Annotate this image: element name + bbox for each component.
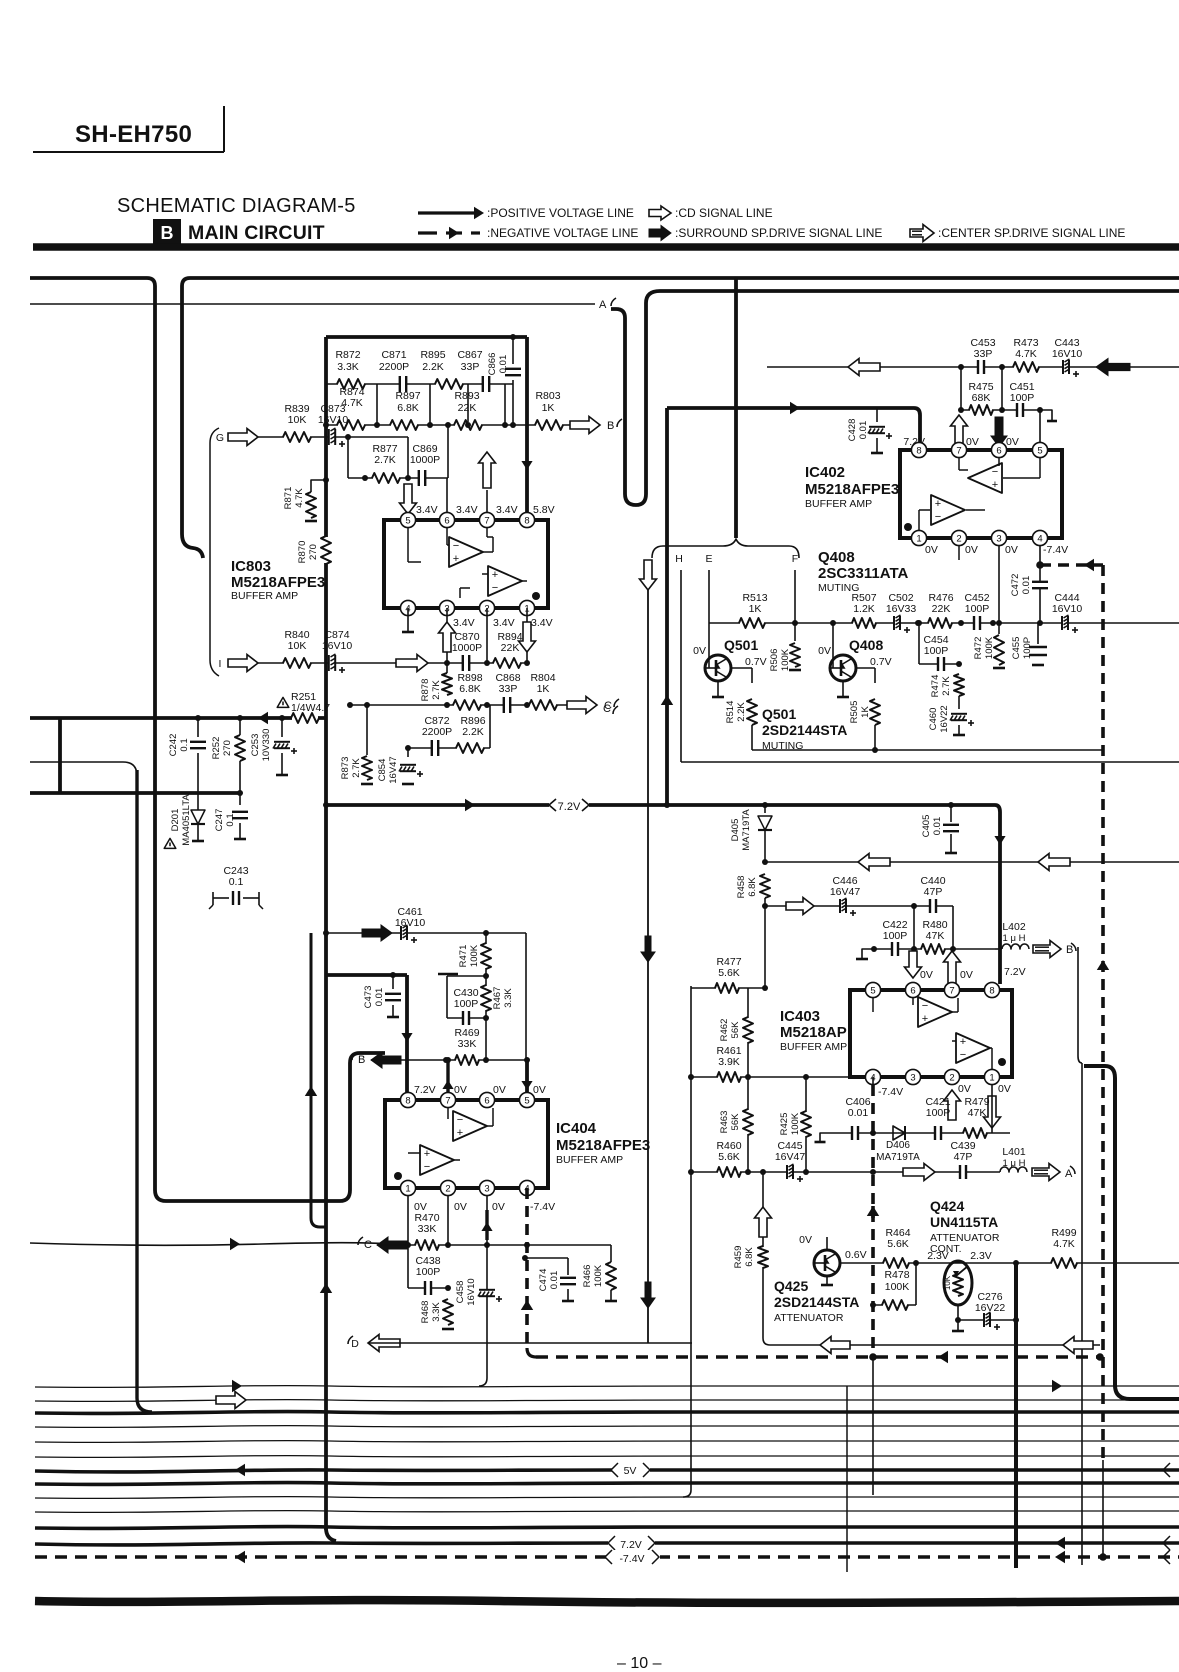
svg-text:D406: D406 — [886, 1140, 910, 1151]
svg-text:R803: R803 — [535, 390, 560, 402]
svg-text:I: I — [219, 658, 222, 670]
svg-text:+: + — [424, 1148, 430, 1160]
svg-text:UN4115TA: UN4115TA — [930, 1214, 998, 1230]
svg-text:R459: R459 — [733, 1246, 744, 1269]
svg-text:1K: 1K — [749, 603, 762, 615]
svg-text:3.9K: 3.9K — [718, 1056, 740, 1068]
svg-text:100P: 100P — [883, 930, 908, 942]
svg-text:Q408: Q408 — [849, 637, 883, 653]
svg-text:2SC3311ATA: 2SC3311ATA — [818, 565, 908, 582]
svg-text:MUTING: MUTING — [818, 582, 859, 594]
svg-text:M5218AP: M5218AP — [780, 1024, 847, 1041]
svg-text:6: 6 — [444, 515, 449, 526]
svg-text:R871: R871 — [283, 487, 294, 510]
svg-text:5.6K: 5.6K — [718, 967, 740, 979]
svg-text:0.1: 0.1 — [225, 813, 236, 826]
svg-text:6.8K: 6.8K — [397, 402, 419, 414]
svg-text:0.7V: 0.7V — [870, 656, 892, 668]
svg-text:22K: 22K — [501, 642, 520, 654]
svg-text:47K: 47K — [926, 930, 945, 942]
svg-text:47K: 47K — [968, 1107, 987, 1119]
svg-text:0V: 0V — [965, 544, 978, 556]
svg-text:100K: 100K — [790, 1112, 801, 1135]
svg-text:L402: L402 — [1002, 921, 1026, 933]
svg-text:8: 8 — [989, 985, 994, 996]
svg-text:3.4V: 3.4V — [493, 617, 515, 629]
svg-text:-7.4V: -7.4V — [619, 1553, 644, 1565]
svg-text:R471: R471 — [458, 945, 469, 968]
svg-text:6.8K: 6.8K — [744, 1247, 755, 1267]
svg-text:1 μ H: 1 μ H — [1003, 1158, 1026, 1169]
svg-text:7.2V: 7.2V — [414, 1084, 436, 1096]
svg-text:C405: C405 — [921, 815, 932, 838]
svg-text:E: E — [705, 553, 712, 565]
svg-text:0.1: 0.1 — [229, 876, 244, 888]
svg-text::POSITIVE VOLTAGE LINE: :POSITIVE VOLTAGE LINE — [487, 206, 634, 220]
svg-text:2.3V: 2.3V — [970, 1250, 992, 1262]
svg-text:C455: C455 — [1011, 637, 1022, 660]
svg-text:−: − — [992, 466, 998, 478]
svg-text:3.3K: 3.3K — [337, 361, 359, 373]
svg-text:Q408: Q408 — [818, 549, 855, 566]
svg-text:16V10: 16V10 — [1052, 348, 1083, 360]
svg-text:0V: 0V — [533, 1084, 546, 1096]
svg-text:0.01: 0.01 — [932, 817, 943, 836]
svg-text:M5218AFPE3: M5218AFPE3 — [556, 1137, 650, 1154]
svg-text:5.6K: 5.6K — [718, 1151, 740, 1163]
svg-text:10K: 10K — [943, 1275, 952, 1290]
svg-text:0V: 0V — [1006, 436, 1019, 448]
svg-text:100P: 100P — [1022, 637, 1033, 659]
svg-text:270: 270 — [222, 740, 233, 756]
svg-text:16V33: 16V33 — [886, 603, 917, 615]
svg-text:IC402: IC402 — [805, 464, 845, 481]
svg-text:100P: 100P — [454, 998, 479, 1010]
svg-text:0V: 0V — [818, 645, 831, 657]
svg-text:R893: R893 — [454, 390, 479, 402]
svg-text:G: G — [216, 432, 224, 444]
svg-text:3: 3 — [996, 533, 1001, 544]
svg-text:C247: C247 — [214, 809, 225, 832]
svg-text:M5218AFPE3: M5218AFPE3 — [231, 574, 325, 591]
svg-text:+: + — [453, 553, 459, 565]
svg-text:−: − — [457, 1114, 463, 1126]
svg-text:C854: C854 — [377, 759, 388, 782]
svg-text:2SD2144STA: 2SD2144STA — [762, 722, 847, 738]
svg-text:8: 8 — [916, 445, 921, 456]
svg-text:7: 7 — [484, 515, 489, 526]
svg-text:C460: C460 — [928, 708, 939, 731]
svg-text:BUFFER AMP: BUFFER AMP — [556, 1154, 623, 1166]
svg-text:0V: 0V — [958, 1083, 971, 1095]
svg-text:C871: C871 — [381, 349, 406, 361]
svg-text:1: 1 — [405, 1183, 410, 1194]
svg-text:5: 5 — [405, 515, 410, 526]
svg-text:16V22: 16V22 — [939, 705, 950, 732]
svg-text:0V: 0V — [998, 1083, 1011, 1095]
svg-text:BUFFER AMP: BUFFER AMP — [780, 1041, 847, 1053]
svg-text:7.2V: 7.2V — [558, 801, 581, 813]
svg-text:C428: C428 — [847, 419, 858, 442]
svg-text:+: + — [992, 479, 998, 491]
svg-text:5V: 5V — [624, 1465, 637, 1477]
svg-text:Q501: Q501 — [762, 706, 796, 722]
svg-text:MA719TA: MA719TA — [741, 809, 752, 851]
svg-text:R506: R506 — [769, 649, 780, 672]
svg-text:0V: 0V — [920, 969, 933, 981]
svg-text:1000P: 1000P — [452, 642, 482, 654]
svg-text::NEGATIVE VOLTAGE LINE: :NEGATIVE VOLTAGE LINE — [487, 226, 638, 240]
svg-text:100K: 100K — [593, 1264, 604, 1287]
svg-text:6: 6 — [910, 985, 915, 996]
svg-text:2.7K: 2.7K — [941, 676, 952, 696]
svg-text:MA4051LTA: MA4051LTA — [181, 794, 192, 846]
svg-text:2.7K: 2.7K — [374, 454, 396, 466]
svg-text:22K: 22K — [932, 603, 951, 615]
svg-text:16V10: 16V10 — [1052, 603, 1083, 615]
svg-text:33P: 33P — [974, 348, 993, 360]
svg-text:33P: 33P — [499, 683, 518, 695]
svg-text:8: 8 — [524, 515, 529, 526]
svg-text:-7.4V: -7.4V — [1043, 544, 1068, 556]
svg-text:4.7K: 4.7K — [294, 488, 305, 508]
svg-text:16V47: 16V47 — [388, 756, 399, 783]
svg-text:10V330: 10V330 — [261, 729, 272, 762]
svg-text:16V10: 16V10 — [466, 1278, 477, 1305]
svg-text:68K: 68K — [972, 392, 991, 404]
svg-text:R514: R514 — [725, 701, 736, 724]
svg-text:3.4V: 3.4V — [456, 504, 478, 516]
svg-text:-7.4V: -7.4V — [878, 1086, 903, 1098]
svg-text:0V: 0V — [925, 544, 938, 556]
svg-text:0.01: 0.01 — [848, 1107, 869, 1119]
svg-text:0.01: 0.01 — [1021, 576, 1032, 595]
svg-text:MA719TA: MA719TA — [876, 1152, 920, 1163]
svg-text:M5218AFPE3: M5218AFPE3 — [805, 481, 899, 498]
svg-text:56K: 56K — [730, 1113, 741, 1131]
svg-text:7: 7 — [949, 985, 954, 996]
svg-text:22K: 22K — [458, 402, 477, 414]
svg-text:1K: 1K — [860, 706, 871, 718]
svg-text:7.2V: 7.2V — [620, 1539, 642, 1551]
svg-text:+: + — [492, 569, 498, 581]
svg-text:−: − — [453, 540, 459, 552]
svg-text:0.1: 0.1 — [179, 738, 190, 751]
svg-text:0V: 0V — [454, 1201, 467, 1213]
svg-text:R895: R895 — [420, 349, 445, 361]
svg-text:2200P: 2200P — [422, 726, 452, 738]
svg-text:0.01: 0.01 — [858, 421, 869, 440]
svg-text:R478: R478 — [884, 1269, 909, 1281]
svg-text:R458: R458 — [736, 876, 747, 899]
svg-text:−: − — [922, 1000, 928, 1012]
svg-text:BUFFER AMP: BUFFER AMP — [805, 498, 872, 510]
svg-text:0.01: 0.01 — [374, 988, 385, 1007]
svg-text:+: + — [922, 1013, 928, 1025]
svg-text:3: 3 — [484, 1183, 489, 1194]
svg-text:2.7K: 2.7K — [431, 680, 442, 700]
svg-text:0.01: 0.01 — [498, 355, 509, 374]
svg-text:C: C — [603, 703, 611, 715]
svg-text:3.4V: 3.4V — [531, 617, 553, 629]
svg-text:0.7V: 0.7V — [745, 656, 767, 668]
svg-text:IC803: IC803 — [231, 558, 271, 575]
svg-text:0V: 0V — [454, 1084, 467, 1096]
svg-text:−: − — [960, 1049, 966, 1061]
svg-text:3.4V: 3.4V — [453, 617, 475, 629]
svg-text:5: 5 — [524, 1095, 529, 1106]
svg-text:6: 6 — [996, 445, 1001, 456]
svg-text:R873: R873 — [340, 757, 351, 780]
svg-text:B: B — [161, 223, 174, 243]
svg-text:2200P: 2200P — [379, 361, 409, 373]
svg-text:100P: 100P — [924, 645, 949, 657]
svg-text:100P: 100P — [965, 603, 990, 615]
svg-text:4.7K: 4.7K — [1015, 348, 1037, 360]
svg-text:R425: R425 — [779, 1113, 790, 1136]
svg-text::SURROUND SP.DRIVE SIGNAL LINE: :SURROUND SP.DRIVE SIGNAL LINE — [675, 226, 882, 240]
svg-text:0V: 0V — [492, 1201, 505, 1213]
svg-text:R467: R467 — [492, 987, 503, 1010]
svg-text:– 10 –: – 10 – — [617, 1655, 662, 1672]
svg-text:0V: 0V — [493, 1084, 506, 1096]
svg-text:2: 2 — [949, 1072, 954, 1083]
svg-text:A: A — [599, 299, 607, 311]
svg-text:1: 1 — [916, 533, 921, 544]
svg-text:6.8K: 6.8K — [747, 877, 758, 897]
svg-text:R474: R474 — [930, 675, 941, 698]
svg-text:3.3K: 3.3K — [503, 988, 514, 1008]
svg-text:C473: C473 — [363, 986, 374, 1009]
svg-text:−: − — [424, 1161, 430, 1173]
svg-text:C242: C242 — [168, 734, 179, 757]
svg-text:+: + — [935, 498, 941, 510]
svg-text:1: 1 — [989, 1072, 994, 1083]
svg-text:1000P: 1000P — [410, 454, 440, 466]
svg-text:+: + — [960, 1036, 966, 1048]
svg-text:100P: 100P — [926, 1107, 951, 1119]
svg-text:SH-EH750: SH-EH750 — [75, 121, 192, 148]
svg-text:R870: R870 — [297, 541, 308, 564]
svg-text:3.4V: 3.4V — [416, 504, 438, 516]
svg-text:Q424: Q424 — [930, 1198, 964, 1214]
svg-text:2.2K: 2.2K — [736, 702, 747, 722]
svg-text:C472: C472 — [1010, 574, 1021, 597]
svg-text:7: 7 — [956, 445, 961, 456]
svg-text:5.8V: 5.8V — [533, 504, 555, 516]
svg-text:C253: C253 — [250, 734, 261, 757]
svg-text:100P: 100P — [1010, 392, 1035, 404]
svg-text:R878: R878 — [420, 679, 431, 702]
svg-text:C866: C866 — [487, 353, 498, 376]
svg-text:1 μ H: 1 μ H — [1003, 933, 1026, 944]
svg-text:R466: R466 — [582, 1265, 593, 1288]
svg-text:2: 2 — [445, 1183, 450, 1194]
svg-text:2: 2 — [956, 533, 961, 544]
svg-text:3.3K: 3.3K — [431, 1302, 442, 1322]
svg-text:100K: 100K — [984, 636, 995, 659]
svg-text:0V: 0V — [960, 969, 973, 981]
svg-text:Q501: Q501 — [724, 637, 758, 653]
svg-text:47P: 47P — [954, 1151, 973, 1163]
svg-text:1K: 1K — [537, 683, 550, 695]
svg-text:7: 7 — [445, 1095, 450, 1106]
svg-text:C474: C474 — [538, 1269, 549, 1292]
svg-text::CD SIGNAL LINE: :CD SIGNAL LINE — [675, 206, 773, 220]
svg-text:2.2K: 2.2K — [422, 361, 444, 373]
svg-text:16V10: 16V10 — [322, 640, 353, 652]
svg-text:4: 4 — [1037, 533, 1042, 544]
svg-text:100K: 100K — [885, 1281, 910, 1293]
svg-text:6: 6 — [484, 1095, 489, 1106]
svg-text::CENTER SP.DRIVE SIGNAL LINE: :CENTER SP.DRIVE SIGNAL LINE — [938, 226, 1125, 240]
svg-text:D: D — [351, 1338, 359, 1350]
svg-text:0.6V: 0.6V — [845, 1249, 867, 1261]
svg-text:33K: 33K — [418, 1223, 437, 1235]
svg-text:100K: 100K — [469, 944, 480, 967]
svg-text:100P: 100P — [416, 1266, 441, 1278]
svg-text:IC403: IC403 — [780, 1008, 820, 1025]
svg-text:D201: D201 — [170, 809, 181, 832]
svg-text:R472: R472 — [973, 637, 984, 660]
svg-text:R463: R463 — [719, 1111, 730, 1134]
svg-text:R872: R872 — [335, 349, 360, 361]
svg-text:47P: 47P — [924, 886, 943, 898]
svg-text:R468: R468 — [420, 1301, 431, 1324]
svg-text:BUFFER AMP: BUFFER AMP — [231, 590, 298, 602]
svg-text:5: 5 — [1037, 445, 1042, 456]
svg-text:CONT.: CONT. — [930, 1243, 962, 1255]
svg-text:+: + — [457, 1127, 463, 1139]
svg-text:33P: 33P — [461, 361, 480, 373]
svg-text:MAIN CIRCUIT: MAIN CIRCUIT — [188, 222, 325, 244]
svg-text:B: B — [358, 1054, 365, 1066]
svg-text:1/4W4.7: 1/4W4.7 — [291, 702, 330, 714]
svg-text:2.7K: 2.7K — [351, 758, 362, 778]
svg-text:F: F — [792, 553, 798, 565]
svg-text:5.6K: 5.6K — [887, 1238, 909, 1250]
svg-text:−: − — [492, 582, 498, 594]
svg-text:0V: 0V — [693, 645, 706, 657]
svg-text:5: 5 — [870, 985, 875, 996]
svg-text:0V: 0V — [799, 1234, 812, 1246]
svg-text:33K: 33K — [458, 1038, 477, 1050]
svg-text:0V: 0V — [1005, 544, 1018, 556]
svg-text:3.4V: 3.4V — [496, 504, 518, 516]
svg-text:1K: 1K — [542, 402, 555, 414]
svg-text:56K: 56K — [730, 1021, 741, 1039]
svg-text:1.2K: 1.2K — [853, 603, 875, 615]
svg-text:16V47: 16V47 — [775, 1151, 806, 1163]
svg-text:C867: C867 — [457, 349, 482, 361]
svg-text:6.8K: 6.8K — [459, 683, 481, 695]
svg-text:Q425: Q425 — [774, 1278, 808, 1294]
svg-text:10K: 10K — [288, 640, 307, 652]
svg-text:0V: 0V — [966, 436, 979, 448]
svg-text:L401: L401 — [1002, 1146, 1026, 1158]
svg-text:H: H — [675, 553, 683, 565]
svg-text:ATTENUATOR: ATTENUATOR — [774, 1312, 844, 1324]
svg-text:16V10: 16V10 — [318, 414, 349, 426]
svg-text:R252: R252 — [211, 737, 222, 760]
svg-text:−: − — [935, 511, 941, 523]
svg-text:IC404: IC404 — [556, 1120, 597, 1137]
svg-text:SCHEMATIC DIAGRAM-5: SCHEMATIC DIAGRAM-5 — [117, 195, 356, 217]
svg-text:16V47: 16V47 — [830, 886, 861, 898]
svg-text:D405: D405 — [730, 819, 741, 842]
svg-text:16V22: 16V22 — [975, 1302, 1006, 1314]
svg-text:270: 270 — [308, 544, 319, 560]
svg-text:C458: C458 — [455, 1281, 466, 1304]
svg-text:R462: R462 — [719, 1019, 730, 1042]
svg-text:8: 8 — [405, 1095, 410, 1106]
svg-text:7.2V: 7.2V — [1004, 966, 1026, 978]
svg-text:-7.4V: -7.4V — [530, 1201, 555, 1213]
svg-text:B: B — [1066, 944, 1073, 956]
svg-text:10K: 10K — [288, 414, 307, 426]
svg-text:2SD2144STA: 2SD2144STA — [774, 1294, 859, 1310]
svg-text:4.7K: 4.7K — [1053, 1238, 1075, 1250]
svg-text:A: A — [1065, 1168, 1073, 1180]
svg-text:B: B — [607, 420, 614, 432]
svg-text:100K: 100K — [780, 648, 791, 671]
svg-text:R897: R897 — [395, 390, 420, 402]
svg-text:16V10: 16V10 — [395, 917, 426, 929]
svg-text:3: 3 — [910, 1072, 915, 1083]
svg-text:C: C — [364, 1239, 372, 1251]
svg-text:2.2K: 2.2K — [462, 726, 484, 738]
svg-text:R505: R505 — [849, 701, 860, 724]
svg-text:0.01: 0.01 — [549, 1271, 560, 1290]
